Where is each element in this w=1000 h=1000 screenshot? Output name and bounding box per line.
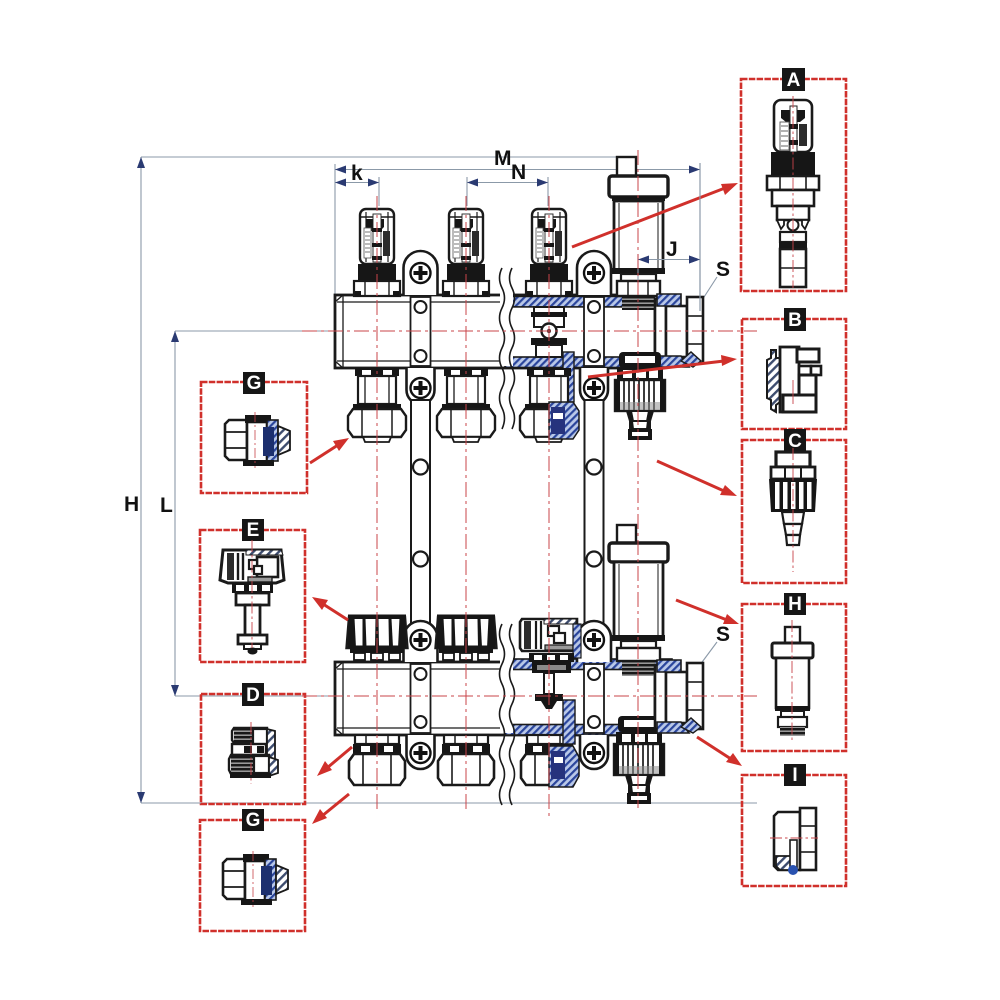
break squiggle bottom [500, 657, 513, 733]
svg-text:H: H [788, 594, 802, 615]
dimension N line [467, 182, 548, 184]
outlet 1 centerline [376, 196, 378, 812]
M left extension [334, 164, 336, 296]
flow meter 1 [354, 209, 400, 297]
H bottom extension line [141, 802, 757, 804]
air vent bottom manifold [609, 525, 668, 676]
box label tags [242, 68, 806, 831]
svg-text:L: L [160, 494, 173, 517]
cut-section hatch bottom wall (return) [505, 725, 646, 736]
return fitting 2 [438, 735, 494, 785]
mounting bracket 2 bottom [577, 621, 611, 769]
arrow to detail A [572, 188, 725, 247]
svg-text:S: S [716, 258, 730, 281]
outlet 3 cut valve internals [531, 307, 574, 402]
outlet fitting 3 (cut-away) [520, 368, 578, 442]
label D [242, 683, 264, 706]
M right extension [699, 163, 701, 311]
detail box C frame [742, 440, 846, 583]
label H [784, 593, 806, 615]
detail box I frame [742, 775, 846, 886]
detail box H frame [742, 604, 846, 751]
dimension labels [124, 147, 730, 646]
end cap top manifold [655, 294, 703, 367]
cut-section hatch top wall (return) [505, 659, 672, 670]
detail G upper : compression fitting side view [225, 412, 290, 468]
detail box G frame (lower) [200, 820, 305, 931]
svg-text:B: B [788, 310, 802, 331]
flow meter 2 [443, 209, 489, 297]
dimension J redrawn over drawing [638, 163, 700, 311]
svg-text:G: G [246, 810, 261, 831]
mounting bracket 2 top [577, 251, 611, 404]
cut-section hatch bottom wall [505, 357, 646, 368]
k right extension [378, 177, 380, 206]
svg-text:J: J [666, 238, 678, 261]
svg-text:D: D [246, 685, 260, 706]
detail A : flow meter [767, 96, 819, 288]
detail C : eurocone adapter [769, 448, 817, 572]
valve insert 3 (cut-away) [520, 619, 581, 709]
air vent centerline [637, 150, 639, 808]
arrow to detail E [323, 604, 348, 620]
return fitting 1 [349, 735, 405, 785]
arrow to detail G lower [322, 794, 349, 816]
dimension k line [335, 182, 379, 184]
detail G lower : compression fitting side view [223, 851, 288, 907]
flow meter 3 [526, 209, 572, 297]
dimension J line [638, 259, 700, 261]
bracket 1 long strap [411, 400, 430, 625]
detail box G frame (upper) [201, 382, 307, 493]
end cap bottom manifold [655, 660, 703, 733]
arrow to detail D [327, 747, 352, 768]
label G upper [243, 372, 265, 394]
svg-text:E: E [247, 520, 260, 541]
balancing knob 2 [436, 615, 497, 661]
S bottom leader [691, 642, 717, 677]
outlet 2 centerline [465, 196, 467, 812]
drain valve on supply manifold [615, 352, 665, 440]
arrow to detail H [676, 600, 727, 620]
supply manifold body [335, 295, 655, 368]
L bottom extension [175, 695, 336, 697]
H top extension line [141, 156, 617, 158]
dimension arrowheads [137, 157, 700, 803]
J left extension [637, 254, 639, 281]
cut-section hatch top wall [505, 296, 672, 307]
svg-text:N: N [511, 161, 526, 184]
label I [784, 764, 806, 786]
label E [242, 519, 264, 541]
detail E : valve insert [220, 540, 284, 655]
balancing knob 1 [347, 615, 408, 661]
label G lower [242, 809, 264, 831]
N extensions [466, 177, 468, 206]
detail H : auto air vent [772, 620, 813, 740]
dimension M line [335, 169, 700, 171]
break squiggle top [500, 290, 513, 366]
svg-text:G: G [247, 373, 262, 394]
centerlines overlay [302, 150, 757, 818]
arrow to detail G upper [310, 445, 338, 463]
svg-text:I: I [792, 765, 797, 786]
svg-text:A: A [787, 70, 801, 91]
detail box D frame [201, 694, 305, 804]
mounting bracket 1 top [404, 251, 438, 404]
detail B : reducing adapter [767, 347, 821, 412]
svg-text:k: k [351, 162, 363, 185]
detail box A frame [741, 79, 846, 291]
label A [782, 68, 805, 91]
top manifold centerline [302, 330, 757, 332]
return manifold body [335, 662, 655, 735]
S top leader [695, 277, 717, 311]
detail box B frame [742, 319, 846, 429]
bottom manifold centerline [302, 695, 757, 697]
outlet fitting 1 [348, 368, 406, 442]
dimension H vertical line [140, 157, 142, 803]
bracket 2 long strap [585, 400, 604, 625]
dimension L vertical line [174, 331, 176, 696]
label C [784, 429, 806, 452]
outlet fitting 2 [437, 368, 495, 442]
arrow to detail I [697, 737, 731, 759]
detail D : double nipple [229, 722, 278, 784]
svg-text:C: C [788, 431, 802, 452]
svg-text:H: H [124, 493, 139, 516]
arrow to detail B [588, 361, 724, 377]
return fitting 3 (cut-away) [521, 735, 577, 785]
mounting bracket 1 bottom [404, 621, 438, 769]
label B [784, 308, 806, 331]
svg-text:M: M [494, 147, 512, 170]
detail box E frame [200, 530, 305, 662]
svg-text:S: S [716, 623, 730, 646]
detail I : end plug [770, 808, 818, 875]
outlet 3 centerline [548, 196, 550, 818]
L top extension [175, 330, 336, 332]
drain valve [614, 716, 664, 804]
arrow to detail C [657, 461, 724, 491]
air vent top manifold [609, 157, 668, 310]
